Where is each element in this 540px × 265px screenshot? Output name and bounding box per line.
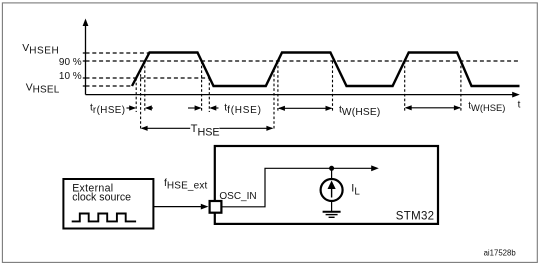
node THSE period dimension arrow <box>141 126 274 131</box>
node junction dot <box>329 166 334 171</box>
svg-text:STM32: STM32 <box>396 211 435 223</box>
wire external clock to OSC_IN with arrow <box>153 204 208 210</box>
svg-text:tr(HSE): tr(HSE) <box>90 103 126 116</box>
node tf(HSE) dimension arrows <box>188 105 219 110</box>
node VHSEL dashed level line <box>86 85 133 87</box>
svg-text:clock source: clock source <box>72 192 131 204</box>
node tW(HSE) pulse3 dimension arrow <box>405 105 461 110</box>
node dashed marker rise1 90% <box>144 61 146 112</box>
node dashed marker fall3 90% <box>460 61 462 111</box>
svg-text:90 %: 90 % <box>59 57 82 68</box>
node dashed marker rise3 90% <box>404 61 406 111</box>
wire HSE clock waveform <box>132 53 520 87</box>
svg-text:tW(HSE): tW(HSE) <box>468 101 505 113</box>
svg-text:10 %: 10 % <box>59 71 82 82</box>
node dashed marker fall1 10% <box>208 78 210 112</box>
wire OSC_IN to internal node with arrow <box>223 165 379 206</box>
node axis tick 90% <box>83 60 86 62</box>
node dashed marker rise1 50% (THSE start) <box>140 70 142 129</box>
node dashed marker fall2 90% <box>332 61 334 111</box>
pin OSC_IN square pad <box>210 201 222 213</box>
node V axis (voltage axis with arrow) <box>83 19 89 95</box>
node VHSEH dashed level line <box>86 52 151 54</box>
svg-text:OSC_IN: OSC_IN <box>219 191 256 202</box>
node dashed marker rise2 50% (THSE end) <box>273 70 275 129</box>
node axis tick VHSEL <box>83 85 86 87</box>
node axis tick VHSEH <box>83 52 86 54</box>
svg-text:tf(HSE): tf(HSE) <box>224 103 261 116</box>
external clock source box <box>63 179 153 229</box>
svg-text:ai17528b: ai17528b <box>484 249 517 258</box>
node square wave symbol <box>72 214 136 222</box>
node 10% dashed level line <box>86 77 210 79</box>
node tr(HSE) dimension arrows <box>127 105 154 110</box>
node dashed marker fall1 90% <box>201 61 203 112</box>
ground <box>323 212 341 218</box>
node t axis (time axis with arrow) <box>86 92 520 98</box>
node dashed marker rise1 10% <box>135 78 137 112</box>
node 90% dashed level line <box>86 60 520 62</box>
svg-text:fHSE_ext: fHSE_ext <box>164 178 207 191</box>
current source IL <box>321 168 343 211</box>
node axis tick 10% <box>83 77 86 79</box>
STM32 box U1 <box>215 146 438 224</box>
svg-text:t: t <box>518 99 521 110</box>
node tW(HSE) pulse2 dimension arrow <box>278 106 333 111</box>
node dashed marker rise2 90% <box>277 61 279 111</box>
